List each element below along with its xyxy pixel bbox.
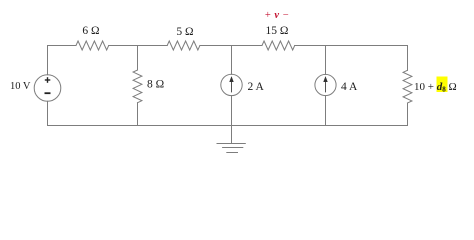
wire left rail below source bbox=[47, 101, 49, 125]
current source I2 arrow bbox=[324, 77, 327, 92]
wire 4A to bottom bbox=[325, 96, 327, 126]
resistor R3 15ohm zigzag bbox=[262, 41, 295, 50]
wire top-right segment bbox=[295, 46, 408, 71]
current source I1 2A circle bbox=[221, 74, 242, 95]
ground bar 2 bbox=[223, 147, 243, 149]
svg-text:2 A: 2 A bbox=[248, 81, 265, 93]
wire node A drop to 8ohm bbox=[137, 46, 139, 71]
ground stub wire bbox=[231, 126, 233, 144]
svg-text:10 V: 10 V bbox=[10, 81, 31, 92]
wire top between 5ohm and 15ohm bbox=[200, 45, 262, 47]
svg-text:4 A: 4 A bbox=[341, 81, 358, 93]
wire node C drop to 4A source bbox=[325, 46, 327, 75]
ground bar 1 bbox=[217, 143, 245, 145]
svg-text:8 Ω: 8 Ω bbox=[147, 79, 164, 91]
svg-text:5 Ω: 5 Ω bbox=[176, 26, 193, 38]
ground bar 3 bbox=[227, 152, 238, 154]
current source I1 arrow bbox=[230, 77, 233, 92]
svg-text:15 Ω: 15 Ω bbox=[266, 25, 289, 37]
wire top-left segment bbox=[48, 46, 77, 75]
resistor R2 5ohm zigzag bbox=[167, 41, 200, 50]
wire bottom rail bbox=[48, 125, 408, 127]
resistor R1 6ohm zigzag bbox=[76, 41, 109, 50]
highlight for d8 bbox=[437, 77, 448, 93]
wire node B drop to 2A source bbox=[231, 46, 233, 75]
resistor R4 8ohm zigzag vertical bbox=[133, 70, 142, 103]
voltage source plus sign bbox=[45, 77, 51, 83]
svg-text:10 + d8 Ω: 10 + d8 Ω bbox=[414, 81, 457, 94]
svg-text:+ v −: + v − bbox=[265, 10, 289, 21]
wire 2A to bottom bbox=[231, 96, 233, 126]
current source I2 4A circle bbox=[315, 74, 336, 95]
wire top between 6ohm and 5ohm bbox=[109, 45, 168, 47]
voltage source minus sign bbox=[45, 92, 51, 94]
wire 8ohm to bottom bbox=[137, 103, 139, 126]
voltage source V1 circle bbox=[34, 75, 61, 102]
resistor R5 10+d8 zigzag vertical bbox=[403, 70, 412, 103]
wire right rail below resistor bbox=[407, 103, 409, 126]
svg-text:6 Ω: 6 Ω bbox=[82, 25, 99, 37]
